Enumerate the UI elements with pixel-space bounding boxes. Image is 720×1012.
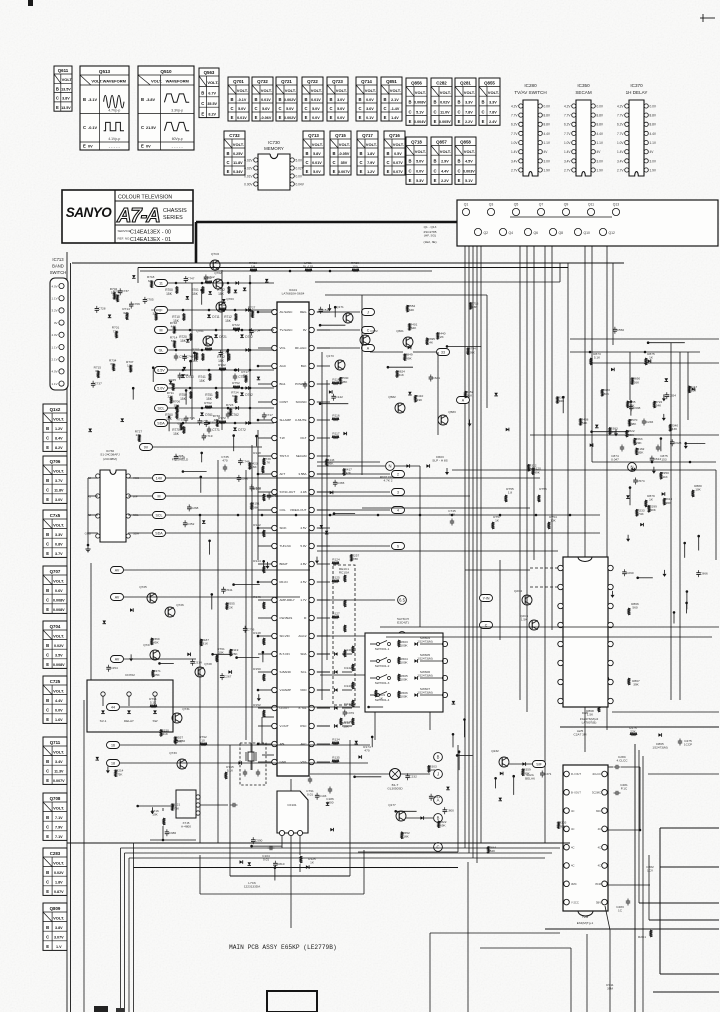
table Q717 [357, 131, 378, 175]
svg-text:V-RAMP: V-RAMP [280, 688, 292, 692]
svg-text:SW7001-2: SW7001-2 [375, 664, 390, 668]
wire pin stub right 25 [317, 761, 330, 763]
svg-text:3.3V: 3.3V [489, 101, 497, 105]
svg-text:R752: R752 [232, 381, 240, 385]
svg-text:91K: 91K [467, 394, 473, 398]
svg-text:N: N [388, 464, 391, 469]
wire pin stub left 13 [258, 545, 272, 547]
svg-text:AGC: AGC [280, 364, 287, 368]
wire ic bottom left [262, 716, 274, 718]
scan mark top left [28, 0, 33, 6]
svg-text:22K: 22K [168, 395, 174, 399]
svg-text:C756: C756 [187, 416, 195, 420]
svg-text:C574: C574 [637, 479, 645, 483]
svg-text:C254: C254 [110, 666, 118, 670]
svg-text:C732: C732 [229, 133, 240, 138]
svg-text:AV: AV [115, 596, 120, 600]
svg-text:43K: 43K [672, 427, 678, 431]
svg-text:0.002V: 0.002V [284, 98, 296, 102]
IC201 video chroma [563, 557, 608, 707]
svg-text:39K: 39K [633, 683, 639, 687]
svg-text:E3C4(T): E3C4(T) [397, 621, 409, 625]
wire pin stub right 10 [317, 491, 330, 493]
svg-text:0.008V: 0.008V [414, 101, 426, 105]
scan mark bottom edge [94, 1006, 108, 1012]
svg-text:C728: C728 [98, 306, 106, 310]
svg-text:3C2MC: 3C2MC [592, 791, 601, 795]
svg-text:0.15: 0.15 [449, 513, 455, 517]
part ra11 [426, 338, 428, 345]
part l22 [117, 295, 119, 302]
svg-text:5.0V: 5.0V [337, 107, 345, 111]
switch SW7001-4 [370, 694, 376, 696]
svg-text:VOLT.: VOLT. [415, 90, 426, 95]
svg-text:B: B [433, 100, 436, 105]
part l26 [185, 389, 188, 392]
svg-text:VOLT.: VOLT. [53, 749, 64, 754]
svg-text:C: C [56, 96, 59, 101]
wire right vert x630 [629, 352, 631, 400]
svg-text:E: E [56, 105, 59, 110]
wire corner x571 [480, 947, 571, 949]
svg-text:5.1V: 5.1V [465, 179, 473, 183]
transistor Q171 [343, 313, 353, 323]
wire SDA/SCL row 3 [128, 532, 152, 534]
svg-text:54K: 54K [656, 404, 662, 408]
svg-text:2.2V: 2.2V [465, 120, 473, 124]
svg-text:B: B [226, 151, 229, 156]
diode row 5 [245, 386, 248, 390]
diode row 4 [235, 368, 238, 372]
wire vert x246b [245, 470, 247, 740]
part bg19 [428, 765, 430, 772]
wire n row [317, 465, 385, 467]
wire to right [166, 477, 540, 479]
svg-text:80K: 80K [604, 392, 610, 396]
part lg7 [243, 627, 247, 629]
svg-text:J: J [367, 311, 369, 315]
part l42 [113, 364, 115, 371]
svg-text:5.0V: 5.0V [286, 107, 294, 111]
part ri7 [663, 414, 665, 418]
svg-text:Q1: Q1 [464, 203, 469, 207]
wire av3 [124, 658, 196, 660]
capacitor C735 [223, 466, 227, 468]
part cf7 [325, 531, 329, 534]
part rc7 [683, 542, 686, 545]
svg-text:VOLT.: VOLT. [53, 416, 64, 421]
svg-text:E: E [434, 119, 437, 124]
wire bundle x473 [472, 246, 474, 858]
part uc7 [248, 862, 252, 865]
table Q281 [455, 78, 476, 125]
transistor Q173 [335, 360, 345, 370]
svg-text:SDA: SDA [300, 652, 306, 656]
svg-text:Q711: Q711 [50, 740, 61, 745]
wire pin stub left 1 [258, 329, 272, 331]
wire pin stub right 6 [317, 419, 330, 421]
svg-text:AV: AV [115, 569, 120, 573]
resistor left col 18 [263, 638, 265, 645]
wire pin stub right 17 [317, 617, 330, 619]
pill SCL [153, 512, 166, 519]
transistor Q728 [195, 667, 205, 677]
pill AV1 [111, 567, 124, 574]
svg-text:Q173: Q173 [326, 354, 334, 358]
part bg15 [405, 775, 409, 777]
svg-text:C748: C748 [242, 460, 250, 464]
svg-text:C866: C866 [700, 572, 708, 576]
table C725 [43, 676, 67, 723]
wire pin stub right 18 [317, 635, 330, 637]
wire ic201 dash2 [530, 586, 558, 588]
svg-text:Q703: Q703 [226, 297, 234, 301]
svg-text:SDA: SDA [133, 532, 139, 536]
svg-text:0.01V: 0.01V [312, 161, 322, 165]
part rc16 [638, 577, 653, 579]
svg-text:9V: 9V [303, 328, 307, 332]
svg-text:VOLT.: VOLT. [53, 915, 64, 920]
table Q715 [330, 131, 351, 175]
part rb21 [557, 397, 559, 404]
resistor left col 16 [263, 602, 265, 609]
pill 4 [392, 507, 405, 514]
svg-text:89K: 89K [524, 771, 530, 775]
part l7 [183, 367, 187, 370]
svg-text:E: E [141, 144, 144, 149]
wire pin row r0 [317, 311, 360, 313]
svg-text:76K: 76K [174, 806, 180, 810]
resistor R873 [590, 358, 592, 365]
svg-text:C641: C641 [433, 376, 441, 380]
svg-text:CONT: CONT [280, 400, 289, 404]
pin circle [442, 641, 447, 646]
wire sw feed [320, 674, 365, 676]
pin circle [442, 692, 447, 697]
ladder part 3-1 [202, 354, 204, 361]
svg-text:VOLT.: VOLT. [312, 142, 323, 147]
svg-text:0.34V: 0.34V [233, 170, 243, 174]
wire y201 r1 [608, 766, 613, 768]
transistor Q726 [165, 607, 175, 617]
wire row left 1 [168, 309, 274, 311]
svg-text:0.02V: 0.02V [54, 644, 64, 648]
part rc4 [660, 472, 662, 479]
table Q856 [406, 78, 427, 125]
part bg16 [355, 741, 359, 744]
terminal pill row 6 [155, 405, 168, 412]
svg-text:VOLT.: VOLT. [53, 633, 64, 638]
svg-text:MAIN PCB ASSY E65KP (LE2779B): MAIN PCB ASSY E65KP (LE2779B) [229, 944, 337, 951]
wire ic bottom 2 [262, 754, 274, 756]
table Q718 [406, 137, 427, 184]
svg-text:C747: C747 [187, 277, 195, 281]
svg-text:8.8V: 8.8V [544, 123, 551, 127]
table Q722 [302, 77, 323, 121]
part rb24 [532, 468, 534, 475]
wire vert x438b [437, 352, 439, 435]
part lf6 [138, 805, 175, 807]
svg-text:E: E [384, 115, 387, 120]
svg-text:0.0V: 0.0V [597, 104, 604, 108]
wire vert x258 [257, 430, 259, 560]
ladder part 6-0 [176, 412, 178, 419]
wire row y447 [152, 446, 262, 448]
svg-text:C: C [359, 160, 362, 165]
svg-text:3.0V: 3.0V [597, 159, 604, 163]
svg-text:C246: C246 [646, 420, 654, 424]
wire av2 [124, 596, 300, 598]
svg-text:7.9V: 7.9V [55, 826, 63, 830]
svg-text:Q5: Q5 [514, 203, 519, 207]
transistor Q232 SIF [499, 757, 509, 767]
svg-text:SW7001-1: SW7001-1 [375, 647, 390, 651]
wire row left 3 [168, 349, 274, 351]
part cf5 [343, 432, 346, 436]
wire pin stub right 15 [317, 581, 330, 583]
part uc0 [251, 839, 255, 841]
part l38 [196, 353, 198, 360]
svg-text:REF. NO.: REF. NO. [118, 237, 131, 241]
svg-text:8.2V: 8.2V [55, 446, 63, 450]
part l48 [151, 281, 153, 288]
terminal pill row 4 [155, 367, 168, 374]
svg-text:B: B [386, 151, 389, 156]
table C7x5 [43, 510, 67, 557]
part l24 [243, 288, 247, 291]
svg-text:C654: C654 [669, 394, 677, 398]
pill 33 [437, 349, 450, 356]
svg-text:Q7: Q7 [539, 203, 544, 207]
table Q716 [384, 131, 405, 175]
svg-text:C730: C730 [179, 355, 187, 359]
svg-text:10K: 10K [695, 488, 701, 492]
svg-text:Q717: Q717 [362, 133, 373, 138]
svg-text:SANYO: SANYO [66, 205, 113, 220]
resistor left col 22 [263, 710, 265, 717]
svg-text:5.9V: 5.9V [300, 544, 306, 548]
svg-text:10K: 10K [152, 813, 158, 817]
svg-text:C: C [332, 160, 335, 165]
svg-text:4.5V: 4.5V [300, 526, 306, 530]
svg-text:D143: D143 [344, 684, 352, 688]
wire pin stub right 22 [317, 707, 330, 709]
part rb6 [636, 448, 638, 455]
svg-text:E: E [409, 178, 412, 183]
svg-text:- - - - -: - - - - - [109, 144, 121, 149]
wire right hline 867 [660, 866, 719, 868]
junction [419, 514, 422, 517]
part le3 [151, 638, 153, 645]
svg-text:C7x5: C7x5 [50, 513, 61, 518]
svg-text:35.5V: 35.5V [207, 102, 217, 106]
wire av vert [90, 563, 92, 680]
resistor left col 8 [263, 458, 265, 465]
svg-text:Q2C4: Q2C4 [514, 589, 522, 593]
svg-text:D761: D761 [205, 413, 213, 417]
wire sw down2 [429, 712, 431, 730]
wire sif [509, 763, 532, 765]
svg-text:0.25V: 0.25V [233, 152, 243, 156]
part bh4 [558, 822, 560, 829]
svg-text:IC20: IC20 [582, 711, 589, 715]
svg-text:54K: 54K [530, 467, 536, 471]
svg-text:0.008V: 0.008V [53, 599, 65, 603]
svg-text:REG: REG [300, 310, 307, 314]
part rb7 [648, 342, 685, 344]
pill T18 [107, 760, 120, 767]
svg-text:E: E [46, 944, 49, 949]
resistor R201 [650, 930, 652, 937]
wire SDA/SCL row 0 [128, 477, 152, 479]
svg-text:48K: 48K [631, 422, 637, 426]
part ra13 [447, 345, 481, 347]
wire hline 570b [465, 569, 530, 571]
svg-text:C: C [230, 106, 233, 111]
part bg14 [371, 736, 374, 739]
svg-text:3.4V: 3.4V [511, 159, 518, 163]
part lf4 [172, 804, 174, 811]
svg-text:86K: 86K [328, 462, 334, 466]
svg-text:C: C [304, 106, 307, 111]
svg-text:Q9: Q9 [564, 203, 569, 207]
svg-text:Q733: Q733 [169, 751, 177, 755]
svg-text:C: C [278, 106, 281, 111]
svg-text:WP: WP [133, 495, 138, 499]
wire pin stub left 6 [258, 419, 272, 421]
svg-text:E: E [306, 169, 309, 174]
svg-text:B: B [141, 97, 144, 102]
thick bus line top [196, 221, 457, 224]
svg-text:7.7V: 7.7V [511, 114, 518, 118]
svg-text:4.4V: 4.4V [650, 132, 657, 136]
svg-text:C282: C282 [436, 81, 447, 86]
resistor row 3 [205, 348, 212, 350]
wire pin stub right 5 [317, 401, 330, 403]
part ri3 [685, 442, 687, 446]
part rb21 [611, 368, 614, 372]
svg-text:AFC: AFC [301, 742, 308, 746]
title block SANYO A7-A [62, 190, 193, 243]
svg-text:61K: 61K [398, 373, 404, 377]
part rc15 [633, 479, 637, 481]
svg-text:46K: 46K [251, 465, 257, 469]
part bh2 [522, 769, 524, 776]
svg-text:Q701: Q701 [233, 79, 244, 84]
svg-text:0.007V: 0.007V [53, 779, 65, 783]
svg-text:8.8V: 8.8V [650, 114, 657, 118]
part lh0 [152, 670, 154, 677]
part l59 [169, 381, 173, 384]
wire pin stub left 2 [258, 347, 272, 349]
svg-text:3.3V: 3.3V [465, 101, 473, 105]
wire pin row r2 [317, 347, 360, 349]
wire row left 2 [168, 329, 274, 331]
wire stub r19 [317, 653, 330, 655]
part le2 [213, 653, 233, 655]
svg-text:E: E [46, 497, 49, 502]
part rb23 [506, 428, 509, 432]
svg-text:AV: AV [115, 658, 120, 662]
svg-text:30K: 30K [152, 312, 158, 316]
svg-text:C14EA13EX - 00: C14EA13EX - 00 [130, 230, 171, 236]
svg-text:SOUND: SOUND [296, 400, 308, 404]
filter X701 box [176, 790, 196, 818]
part rb17 [648, 359, 651, 363]
wire pin stub left 0 [258, 311, 272, 313]
svg-text:B: B [304, 97, 307, 102]
svg-text:RF-IN: RF-IN [280, 580, 288, 584]
svg-text:C: C [408, 109, 411, 114]
svg-text:1.9V: 1.9V [544, 168, 551, 172]
part l60 [193, 352, 196, 355]
svg-text:M: M [158, 495, 161, 499]
svg-text:1CV: 1CV [647, 869, 654, 873]
part cf9 [316, 557, 318, 561]
svg-text:0.02V: 0.02V [244, 158, 253, 162]
resistor R609 [375, 690, 377, 697]
svg-text:0.1V: 0.1V [366, 116, 374, 120]
part l47 [235, 396, 237, 403]
svg-text:83K: 83K [472, 305, 478, 309]
svg-text:84C: 84C [596, 809, 601, 813]
part l17 [230, 409, 232, 416]
svg-text:4C: 4C [598, 827, 601, 831]
svg-text:6.2V: 6.2V [617, 123, 624, 127]
svg-text:BELA6: BELA6 [525, 777, 535, 781]
svg-text:C: C [305, 160, 308, 165]
wire pin stub left 16 [258, 599, 272, 601]
part l37 [245, 376, 247, 383]
part uc2 [315, 794, 319, 796]
svg-text:0.07V: 0.07V [393, 161, 403, 165]
part bh0 [499, 798, 503, 801]
wire drop x520 [519, 246, 521, 700]
svg-text:15K: 15K [225, 319, 232, 323]
part rb5 [595, 425, 599, 428]
svg-text:Q6: Q6 [534, 231, 539, 235]
svg-text:R117: R117 [332, 432, 339, 436]
svg-text:B: B [83, 97, 86, 102]
svg-text:C: C [46, 825, 49, 830]
svg-text:0.0V: 0.0V [296, 174, 303, 178]
svg-text:Q281: Q281 [460, 81, 471, 86]
svg-text:B: B [46, 643, 49, 648]
svg-text:P.1C: P.1C [621, 787, 628, 791]
wire bundle y848 [121, 847, 561, 849]
wire vert x613 [612, 263, 614, 345]
wire right hline 974 [660, 973, 719, 975]
part ra5 [429, 376, 433, 378]
part ra12 [329, 390, 332, 394]
svg-text:VOLT.: VOLT. [311, 88, 322, 93]
svg-text:10K: 10K [343, 725, 349, 729]
svg-text:5.0V: 5.0V [296, 158, 303, 162]
pill B2 [434, 770, 443, 779]
svg-text:SD-VID: SD-VID [280, 634, 291, 638]
svg-text:90K: 90K [650, 508, 656, 512]
terminal pill row 7 [155, 420, 168, 427]
svg-text:2.1V: 2.1V [391, 98, 399, 102]
svg-text:CHASSIS: CHASSIS [163, 208, 187, 214]
part ld10 [208, 540, 211, 543]
svg-text:R148: R148 [253, 631, 261, 635]
svg-text:C705: C705 [146, 297, 154, 301]
part l13 [189, 360, 192, 363]
svg-text:85K: 85K [638, 451, 644, 455]
svg-text:100K: 100K [400, 661, 408, 665]
svg-text:C: C [141, 125, 144, 130]
